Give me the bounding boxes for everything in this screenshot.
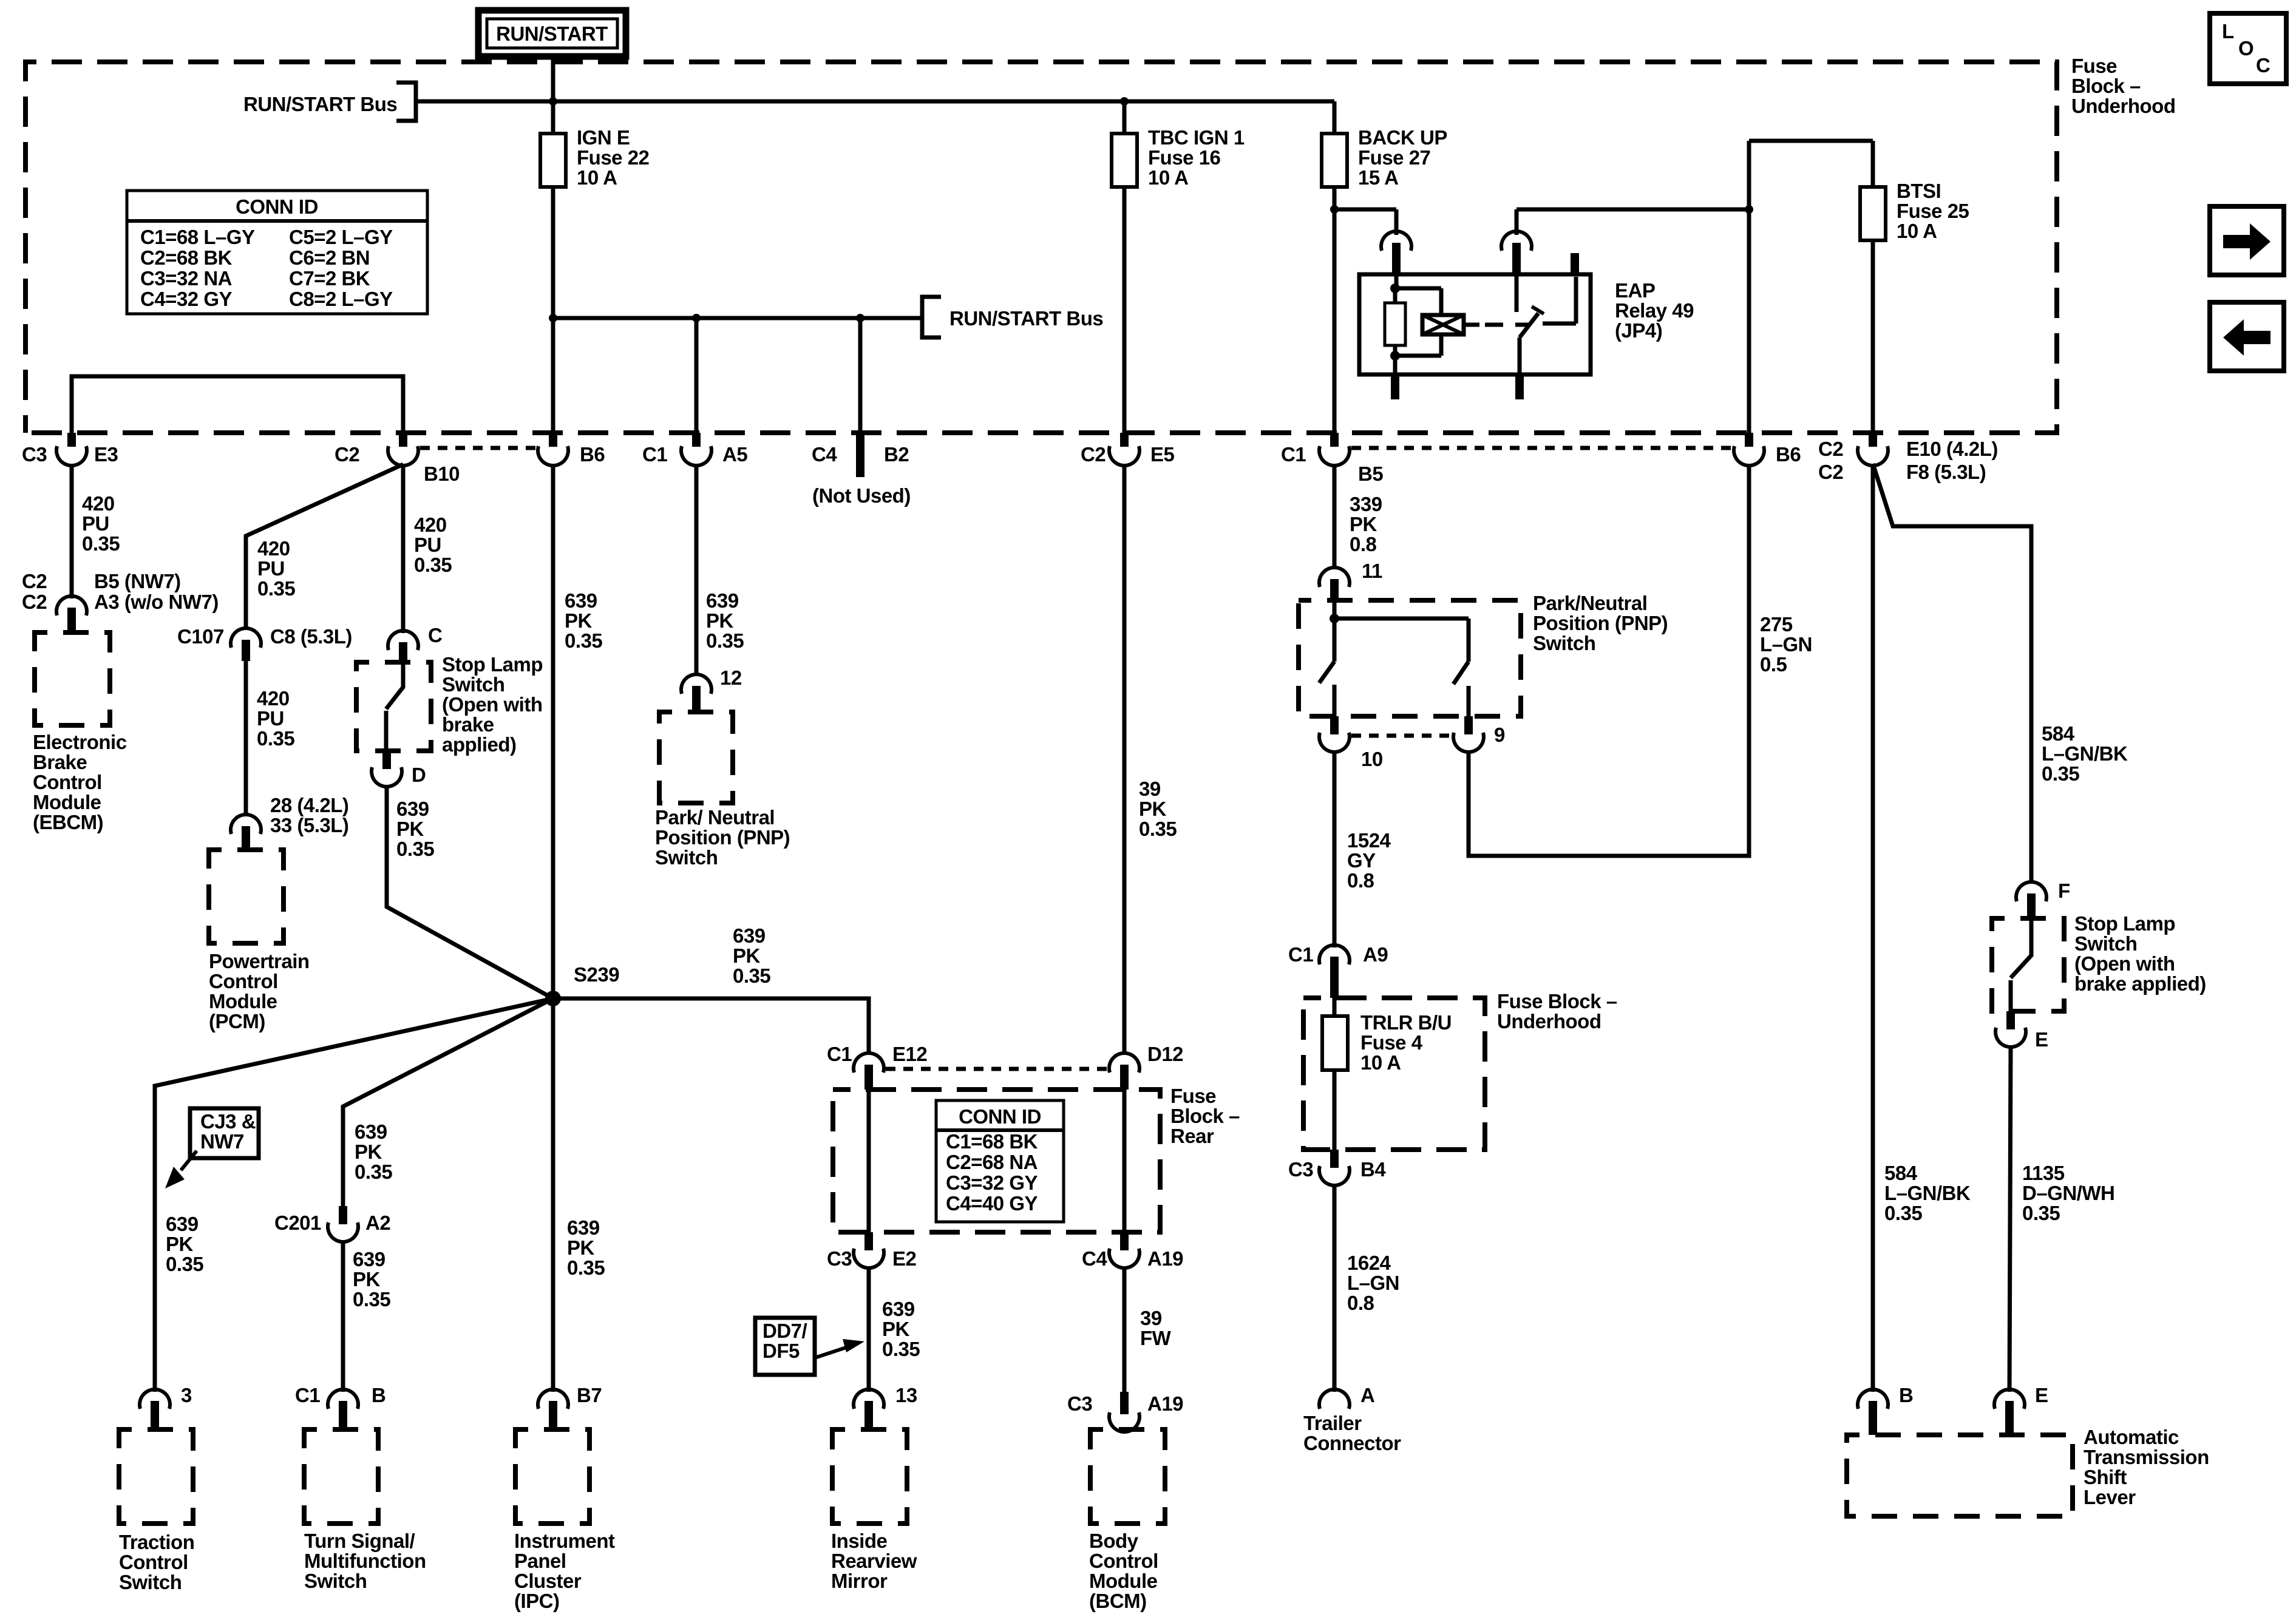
- relay switch fixed contact: [1515, 274, 1519, 312]
- module Turn Signal/Multifunction Switch box: [304, 1429, 378, 1524]
- switch blade (stop lamp left): [386, 662, 403, 751]
- svg-text:A2: A2: [365, 1212, 390, 1234]
- relay coil (X symbol): [1422, 315, 1464, 334]
- svg-text:B: B: [1899, 1384, 1913, 1406]
- svg-text:11: 11: [1362, 560, 1382, 582]
- svg-text:Electronic: Electronic: [33, 731, 127, 753]
- svg-text:BTSI: BTSI: [1897, 180, 1941, 202]
- junction bus1-IGN E: [549, 97, 557, 106]
- svg-text:NW7: NW7: [200, 1130, 244, 1153]
- svg-text:Relay 49: Relay 49: [1615, 299, 1694, 322]
- connector C1 B (turn signal): [295, 1384, 385, 1429]
- label Body Control Module (BCM): [1089, 1530, 1158, 1612]
- svg-text:IGN E: IGN E: [577, 126, 630, 149]
- svg-text:0.35: 0.35: [257, 727, 294, 750]
- svg-text:Inside: Inside: [831, 1530, 888, 1552]
- svg-text:Mirror: Mirror: [831, 1570, 888, 1592]
- svg-text:Stop Lamp: Stop Lamp: [2074, 912, 2175, 935]
- svg-text:Position (PNP): Position (PNP): [1533, 612, 1668, 634]
- wire E5 down to D12: [1123, 464, 1127, 1054]
- svg-text:PK: PK: [1139, 798, 1167, 820]
- svg-text:0.35: 0.35: [166, 1253, 203, 1275]
- relay actuator dashed link: [1485, 323, 1530, 327]
- svg-text:0.35: 0.35: [257, 577, 295, 600]
- svg-text:DF5: DF5: [763, 1340, 800, 1362]
- svg-text:639: 639: [353, 1248, 385, 1270]
- junction fuse27 output: [1330, 205, 1339, 214]
- svg-text:1624: 1624: [1347, 1252, 1391, 1274]
- connector C (stop lamp): [388, 624, 442, 662]
- connector C2 E5: [1081, 433, 1175, 466]
- wire B6b drop inside block: [1747, 209, 1751, 433]
- wire B5 down to PNP2: [1333, 464, 1337, 569]
- wire relay switch pin feed: [1515, 209, 1519, 235]
- label 639 PK 0.35 (IPC wire): [567, 1216, 605, 1279]
- wire fuse22 down to connector row: [551, 187, 555, 433]
- connector C3 E2: [827, 1232, 917, 1270]
- label TRLR B/U Fuse 4 10 A: [1360, 1011, 1452, 1074]
- bracket RUN/START Bus (lower): [922, 297, 941, 337]
- page arrow left: [2210, 302, 2284, 371]
- svg-text:Automatic: Automatic: [2084, 1426, 2179, 1448]
- svg-text:10 A: 10 A: [1360, 1051, 1401, 1074]
- svg-text:420: 420: [257, 537, 290, 560]
- wire D to S239: [387, 785, 553, 998]
- svg-text:E: E: [2035, 1028, 2048, 1051]
- connector E (shift lever): [1994, 1384, 2048, 1435]
- svg-text:C1=68 L–GY: C1=68 L–GY: [140, 226, 255, 248]
- wire fuse16 down to connector row: [1123, 187, 1127, 433]
- svg-text:0.8: 0.8: [1347, 1292, 1374, 1314]
- svg-text:C4=40 GY: C4=40 GY: [946, 1192, 1038, 1215]
- svg-text:0.35: 0.35: [706, 629, 744, 652]
- label 639 PK 0.35 (B6 wire): [565, 589, 602, 652]
- connector C107 C8: [177, 625, 352, 661]
- svg-text:PK: PK: [567, 1236, 595, 1259]
- fuse BTSI Fuse 25 10A: [1860, 141, 1886, 240]
- svg-text:L: L: [2222, 20, 2234, 42]
- label BACK UP Fuse 27 15 A: [1358, 126, 1447, 189]
- label RUN/START Bus (upper): [243, 93, 397, 115]
- module EBCM box: [35, 632, 110, 725]
- junction bus2-A5: [692, 314, 701, 322]
- svg-text:A19: A19: [1147, 1392, 1183, 1415]
- bracket RUN/START Bus (upper): [396, 83, 416, 121]
- svg-text:9: 9: [1494, 724, 1505, 746]
- svg-text:0.35: 0.35: [882, 1338, 920, 1360]
- wire BTSI riser up and over: [1749, 141, 1873, 209]
- svg-text:C2: C2: [22, 591, 47, 613]
- svg-text:33 (5.3L): 33 (5.3L): [270, 814, 348, 836]
- svg-text:PK: PK: [166, 1233, 194, 1255]
- table CONN ID (fuse block rear): [936, 1100, 1064, 1222]
- svg-text:A5: A5: [722, 443, 747, 466]
- svg-text:639: 639: [355, 1120, 387, 1143]
- wire C107 to PCM: [244, 661, 248, 816]
- module Traction Control Switch box: [119, 1429, 193, 1524]
- label 1135 D-GN/WH 0.35: [2022, 1162, 2114, 1224]
- svg-text:C5=2 L–GY: C5=2 L–GY: [289, 226, 393, 248]
- label 420 PU 0.35 (E3): [82, 492, 120, 555]
- connector 10: [1319, 716, 1383, 770]
- svg-text:B6: B6: [580, 443, 605, 466]
- svg-text:Switch: Switch: [304, 1570, 367, 1592]
- wire fuse27 junction to relay coil pin: [1334, 209, 1396, 235]
- svg-text:C3: C3: [827, 1247, 852, 1270]
- connector C4 B2 (not used): [812, 318, 911, 507]
- wire PNP2 internal feed: [1330, 600, 1469, 623]
- svg-text:F: F: [2058, 880, 2070, 902]
- switch blade PNP right: [1453, 619, 1469, 716]
- label RUN/START Bus (lower): [949, 307, 1103, 330]
- svg-text:PK: PK: [706, 609, 734, 632]
- svg-text:Fuse 4: Fuse 4: [1360, 1031, 1423, 1054]
- svg-text:0.35: 0.35: [1884, 1202, 1922, 1224]
- fuse BACK UP Fuse 27 15A: [1322, 101, 1347, 187]
- svg-text:(EBCM): (EBCM): [33, 811, 103, 833]
- connector C1 A9: [1288, 943, 1388, 998]
- relay coil branch bottom: [1395, 334, 1441, 356]
- wire E down to shift lever: [2009, 1046, 2011, 1392]
- relay spare pin stub: [1571, 253, 1579, 274]
- label Turn Signal/ Multifunction Switch: [304, 1530, 426, 1592]
- label 1524 GY 0.8: [1347, 829, 1391, 892]
- callout arrow DD7/DF5: [815, 1339, 864, 1358]
- svg-text:Brake: Brake: [33, 751, 87, 773]
- wire C201 down to switch: [341, 1241, 345, 1392]
- page arrow right: [2210, 206, 2284, 275]
- label 39 PK 0.35 (E5): [1139, 778, 1177, 840]
- svg-text:CONN ID: CONN ID: [236, 195, 318, 218]
- wire B4 down to trailer connector: [1333, 1184, 1337, 1392]
- svg-text:(Open with: (Open with: [2074, 952, 2175, 975]
- label 275 L-GN 0.5: [1760, 613, 1812, 676]
- table CONN ID (fuse block underhood): [127, 191, 427, 314]
- label Trailer Connector: [1303, 1412, 1401, 1454]
- svg-text:L–GN/BK: L–GN/BK: [1884, 1182, 1971, 1204]
- wire S239 to traction control: [155, 998, 553, 1392]
- svg-text:0.35: 0.35: [82, 532, 120, 555]
- wire BTSI down to connector row: [1871, 240, 1875, 433]
- svg-text:RUN/START Bus: RUN/START Bus: [243, 93, 397, 115]
- wire A19 down to BCM: [1123, 1267, 1127, 1392]
- module Automatic Transmission Shift Lever box: [1847, 1435, 2073, 1516]
- svg-text:Turn Signal/: Turn Signal/: [304, 1530, 415, 1552]
- wire E2 down to mirror: [867, 1267, 871, 1392]
- relay coil suppression resistor: [1385, 288, 1405, 361]
- connector C2 C2 B5/A3: [22, 570, 219, 632]
- svg-text:639: 639: [882, 1298, 915, 1320]
- svg-text:C8=2 L–GY: C8=2 L–GY: [289, 288, 393, 310]
- svg-text:28 (4.2L): 28 (4.2L): [270, 794, 348, 816]
- wire E10 branch to stop lamp: [1873, 464, 2031, 883]
- svg-text:10 A: 10 A: [1897, 220, 1937, 242]
- label EAP Relay 49 (JP4): [1615, 279, 1694, 342]
- svg-text:Control: Control: [1089, 1550, 1158, 1572]
- module BCM box: [1090, 1429, 1165, 1524]
- svg-text:Position (PNP): Position (PNP): [655, 826, 790, 849]
- svg-text:13: 13: [895, 1384, 917, 1406]
- svg-text:Control: Control: [119, 1551, 188, 1573]
- svg-text:O: O: [2238, 37, 2254, 59]
- relay switch NO contact: [1543, 277, 1576, 324]
- label Park/ Neutral Position (PNP) Switch: [655, 806, 790, 869]
- connector C3 A19 (BCM): [1067, 1392, 1183, 1432]
- connector E (stop lamp): [1995, 1011, 2048, 1051]
- svg-text:Fuse 22: Fuse 22: [577, 146, 650, 169]
- svg-text:420: 420: [414, 514, 447, 536]
- wire A5 down to PNP: [695, 464, 699, 676]
- svg-text:(JP4): (JP4): [1615, 319, 1662, 342]
- label Fuse Block - Rear: [1170, 1085, 1240, 1147]
- label BTSI Fuse 25 10 A: [1897, 180, 1969, 242]
- label Automatic Transmission Shift Lever: [2084, 1426, 2209, 1508]
- wire RUN/START box to bus: [551, 56, 555, 101]
- module PCM box: [209, 850, 284, 943]
- svg-text:0.35: 0.35: [565, 629, 602, 652]
- wire E3-B10 bridge: [72, 376, 403, 433]
- svg-text:B7: B7: [577, 1384, 602, 1406]
- power feed box RUN/START: [478, 10, 626, 56]
- svg-text:10 A: 10 A: [577, 166, 617, 189]
- svg-text:C1=68 BK: C1=68 BK: [946, 1130, 1038, 1153]
- connector 3 (traction control): [140, 1384, 192, 1429]
- svg-text:PU: PU: [257, 707, 284, 730]
- svg-text:3: 3: [181, 1384, 192, 1406]
- svg-text:Body: Body: [1089, 1530, 1139, 1552]
- wire B6 down to S239: [551, 464, 555, 998]
- svg-text:Panel: Panel: [514, 1550, 566, 1572]
- svg-text:E10 (4.2L): E10 (4.2L): [1906, 438, 1998, 460]
- dotted row line B5-B6: [1351, 446, 1731, 450]
- svg-text:A: A: [1360, 1384, 1374, 1406]
- switch blade (stop lamp right): [2011, 918, 2031, 1011]
- wire relay feed to BTSI riser: [1517, 205, 1753, 214]
- svg-text:10 A: 10 A: [1148, 166, 1188, 189]
- svg-text:E: E: [2035, 1384, 2048, 1406]
- svg-text:Module: Module: [33, 791, 101, 813]
- connector D12: [1109, 1043, 1183, 1090]
- svg-text:0.35: 0.35: [355, 1161, 392, 1183]
- svg-text:E2: E2: [892, 1247, 917, 1270]
- svg-text:C3: C3: [22, 443, 47, 466]
- label Inside Rearview Mirror: [831, 1530, 917, 1592]
- svg-text:0.5: 0.5: [1760, 653, 1787, 676]
- connector 12 (PNP): [681, 666, 742, 712]
- connector 13 (mirror): [854, 1384, 917, 1429]
- fuse TRLR B/U Fuse 4 10A: [1322, 998, 1348, 1150]
- svg-text:C2: C2: [335, 443, 359, 466]
- label Stop Lamp Switch (Open with brake applied) right: [2074, 912, 2206, 995]
- connector C3 B4: [1288, 1150, 1386, 1185]
- connector 11 (PNP): [1319, 560, 1382, 600]
- splice S239: [545, 963, 619, 1006]
- callout arrow CJ3: [165, 1151, 197, 1188]
- svg-text:Underhood: Underhood: [1497, 1010, 1601, 1032]
- wire RUN/START bus 1: [416, 100, 1334, 104]
- svg-text:420: 420: [257, 687, 290, 710]
- dotted row line 10-9: [1351, 734, 1452, 738]
- svg-text:PK: PK: [355, 1141, 382, 1163]
- svg-text:L–GN: L–GN: [1760, 633, 1812, 656]
- fuse block underhood outline (dashed): [25, 62, 2057, 433]
- svg-text:PK: PK: [565, 609, 593, 632]
- connector C4 A19: [1082, 1232, 1183, 1270]
- svg-text:639: 639: [706, 589, 739, 612]
- label IGN E Fuse 22 10 A: [577, 126, 650, 189]
- svg-text:(Not Used): (Not Used): [812, 484, 911, 507]
- fuse TBC IGN 1 Fuse 16 10A: [1112, 101, 1137, 187]
- switch Stop Lamp (left) box: [356, 662, 431, 751]
- junction bus2-B2: [856, 314, 864, 322]
- svg-text:C6=2 BN: C6=2 BN: [289, 246, 370, 269]
- wire E10 down to B (shift lever): [1871, 464, 1875, 1392]
- svg-text:DD7/: DD7/: [763, 1320, 807, 1342]
- svg-text:D12: D12: [1147, 1043, 1183, 1065]
- svg-text:C4: C4: [1082, 1247, 1107, 1270]
- wire S239 to E12: [553, 998, 869, 1054]
- svg-text:C1: C1: [1281, 443, 1306, 466]
- svg-text:1135: 1135: [2022, 1162, 2065, 1184]
- dotted row line B10-B6: [420, 446, 537, 450]
- connector 9: [1453, 716, 1505, 752]
- wire E3 down to EBCM connector: [70, 464, 74, 598]
- svg-text:PK: PK: [882, 1318, 910, 1340]
- svg-text:PU: PU: [82, 512, 109, 535]
- svg-text:C2=68 NA: C2=68 NA: [946, 1151, 1038, 1173]
- wire S239 down to IPC: [551, 998, 555, 1392]
- label 639 PK 0.35 (below C201): [353, 1248, 390, 1310]
- svg-text:L–GN: L–GN: [1347, 1272, 1399, 1294]
- svg-text:39: 39: [1139, 778, 1161, 800]
- fuse block underhood 2 outline (dashed): [1303, 998, 1485, 1150]
- svg-text:Rearview: Rearview: [831, 1550, 917, 1572]
- connector B (shift lever): [1858, 1384, 1913, 1435]
- wire 10 down to A9: [1333, 751, 1337, 947]
- svg-text:Multifunction: Multifunction: [304, 1550, 426, 1572]
- svg-text:Stop Lamp: Stop Lamp: [442, 653, 543, 676]
- svg-text:0.8: 0.8: [1347, 869, 1374, 892]
- svg-text:CJ3 &: CJ3 &: [200, 1110, 256, 1133]
- connector F (stop lamp): [2016, 880, 2070, 918]
- svg-text:0.8: 0.8: [1350, 533, 1377, 555]
- label Powertrain Control Module (PCM): [209, 950, 310, 1032]
- svg-text:A19: A19: [1147, 1247, 1183, 1270]
- svg-text:C2: C2: [1818, 461, 1843, 483]
- relay switch pin 30 connector: [1501, 231, 1532, 274]
- svg-text:C2: C2: [22, 570, 47, 592]
- connector B6 (IPC feed): [538, 433, 605, 466]
- svg-text:Instrument: Instrument: [514, 1530, 615, 1552]
- svg-text:0.35: 0.35: [733, 964, 770, 987]
- wire RUN/START bus 2: [553, 316, 922, 320]
- dotted row line E12-D12: [886, 1067, 1109, 1071]
- svg-text:275: 275: [1760, 613, 1793, 636]
- svg-text:584: 584: [2042, 722, 2075, 745]
- svg-text:Park/ Neutral: Park/ Neutral: [655, 806, 775, 829]
- svg-text:C3=32 GY: C3=32 GY: [946, 1171, 1038, 1194]
- svg-text:Park/Neutral: Park/Neutral: [1533, 592, 1647, 614]
- svg-text:brake applied): brake applied): [2074, 972, 2206, 995]
- svg-text:B: B: [372, 1384, 385, 1406]
- svg-text:0.35: 0.35: [353, 1288, 390, 1310]
- svg-text:GY: GY: [1347, 849, 1376, 872]
- label Instrument Panel Cluster (IPC): [514, 1530, 615, 1612]
- wire 9 to B6 connector: [1469, 464, 1749, 856]
- relay pin1 internal lead: [1390, 274, 1400, 293]
- connector C1 B5: [1281, 433, 1383, 485]
- svg-text:639: 639: [733, 924, 766, 947]
- svg-text:Module: Module: [209, 990, 277, 1012]
- svg-text:584: 584: [1884, 1162, 1918, 1184]
- junction bus2 tap: [549, 314, 557, 322]
- junction bus1-TBC: [1120, 97, 1129, 106]
- svg-text:(BCM): (BCM): [1089, 1590, 1147, 1612]
- switch Stop Lamp (right) box: [1992, 918, 2064, 1011]
- connector B6 (relay feed): [1734, 433, 1801, 466]
- callout box CJ3 & NW7: [190, 1108, 259, 1158]
- relay EAP 49 box: [1359, 274, 1591, 375]
- wire B10 to C107 (diagonal): [246, 464, 403, 629]
- module IPC box: [515, 1429, 589, 1524]
- label 639 PK 0.35 (traction): [166, 1213, 203, 1275]
- svg-text:Switch: Switch: [1533, 632, 1595, 654]
- svg-text:C2=68 BK: C2=68 BK: [140, 246, 233, 269]
- svg-text:C: C: [428, 624, 442, 646]
- svg-text:C1: C1: [642, 443, 667, 466]
- svg-text:Powertrain: Powertrain: [209, 950, 310, 972]
- switch blade PNP left: [1319, 619, 1334, 716]
- connector C2 C2 E10/F8: [1818, 433, 1998, 483]
- svg-text:39: 39: [1140, 1307, 1162, 1329]
- svg-text:C201: C201: [274, 1212, 321, 1234]
- svg-text:1524: 1524: [1347, 829, 1391, 852]
- relay coil pin bottom lead: [1393, 356, 1398, 399]
- connector A (trailer): [1319, 1384, 1374, 1409]
- svg-text:10: 10: [1361, 748, 1383, 770]
- label Traction Control Switch: [119, 1531, 194, 1593]
- svg-text:Underhood: Underhood: [2071, 95, 2175, 117]
- relay coil branch top: [1395, 288, 1441, 315]
- label 339 PK 0.8: [1350, 493, 1382, 555]
- wire D12 through rear block: [1123, 1090, 1127, 1232]
- svg-text:BACK UP: BACK UP: [1358, 126, 1447, 149]
- svg-text:Fuse: Fuse: [2071, 55, 2117, 77]
- connector C2 B10: [335, 433, 460, 485]
- svg-text:0.35: 0.35: [414, 554, 452, 576]
- connector C1 A5: [642, 318, 747, 466]
- svg-text:Switch: Switch: [2074, 932, 2137, 955]
- svg-text:Control: Control: [33, 771, 102, 793]
- svg-text:Cluster: Cluster: [514, 1570, 582, 1592]
- svg-text:B6: B6: [1776, 443, 1801, 466]
- svg-text:C1: C1: [1288, 943, 1313, 966]
- label Stop Lamp Switch (Open with brake applied): [442, 653, 543, 756]
- svg-text:Transmission: Transmission: [2084, 1446, 2209, 1468]
- svg-text:PK: PK: [1350, 513, 1377, 535]
- svg-text:Block –: Block –: [2071, 75, 2141, 97]
- svg-text:Lever: Lever: [2084, 1486, 2136, 1508]
- svg-text:S239: S239: [574, 963, 619, 986]
- svg-text:D–GN/WH: D–GN/WH: [2022, 1182, 2114, 1204]
- label 39 FW: [1140, 1307, 1172, 1349]
- svg-text:PK: PK: [733, 944, 761, 967]
- svg-text:RUN/START Bus: RUN/START Bus: [949, 307, 1103, 330]
- svg-text:B10: B10: [424, 463, 460, 485]
- svg-text:L–GN/BK: L–GN/BK: [2042, 742, 2128, 765]
- svg-text:C2: C2: [1081, 443, 1106, 466]
- svg-text:Fuse 16: Fuse 16: [1148, 146, 1221, 169]
